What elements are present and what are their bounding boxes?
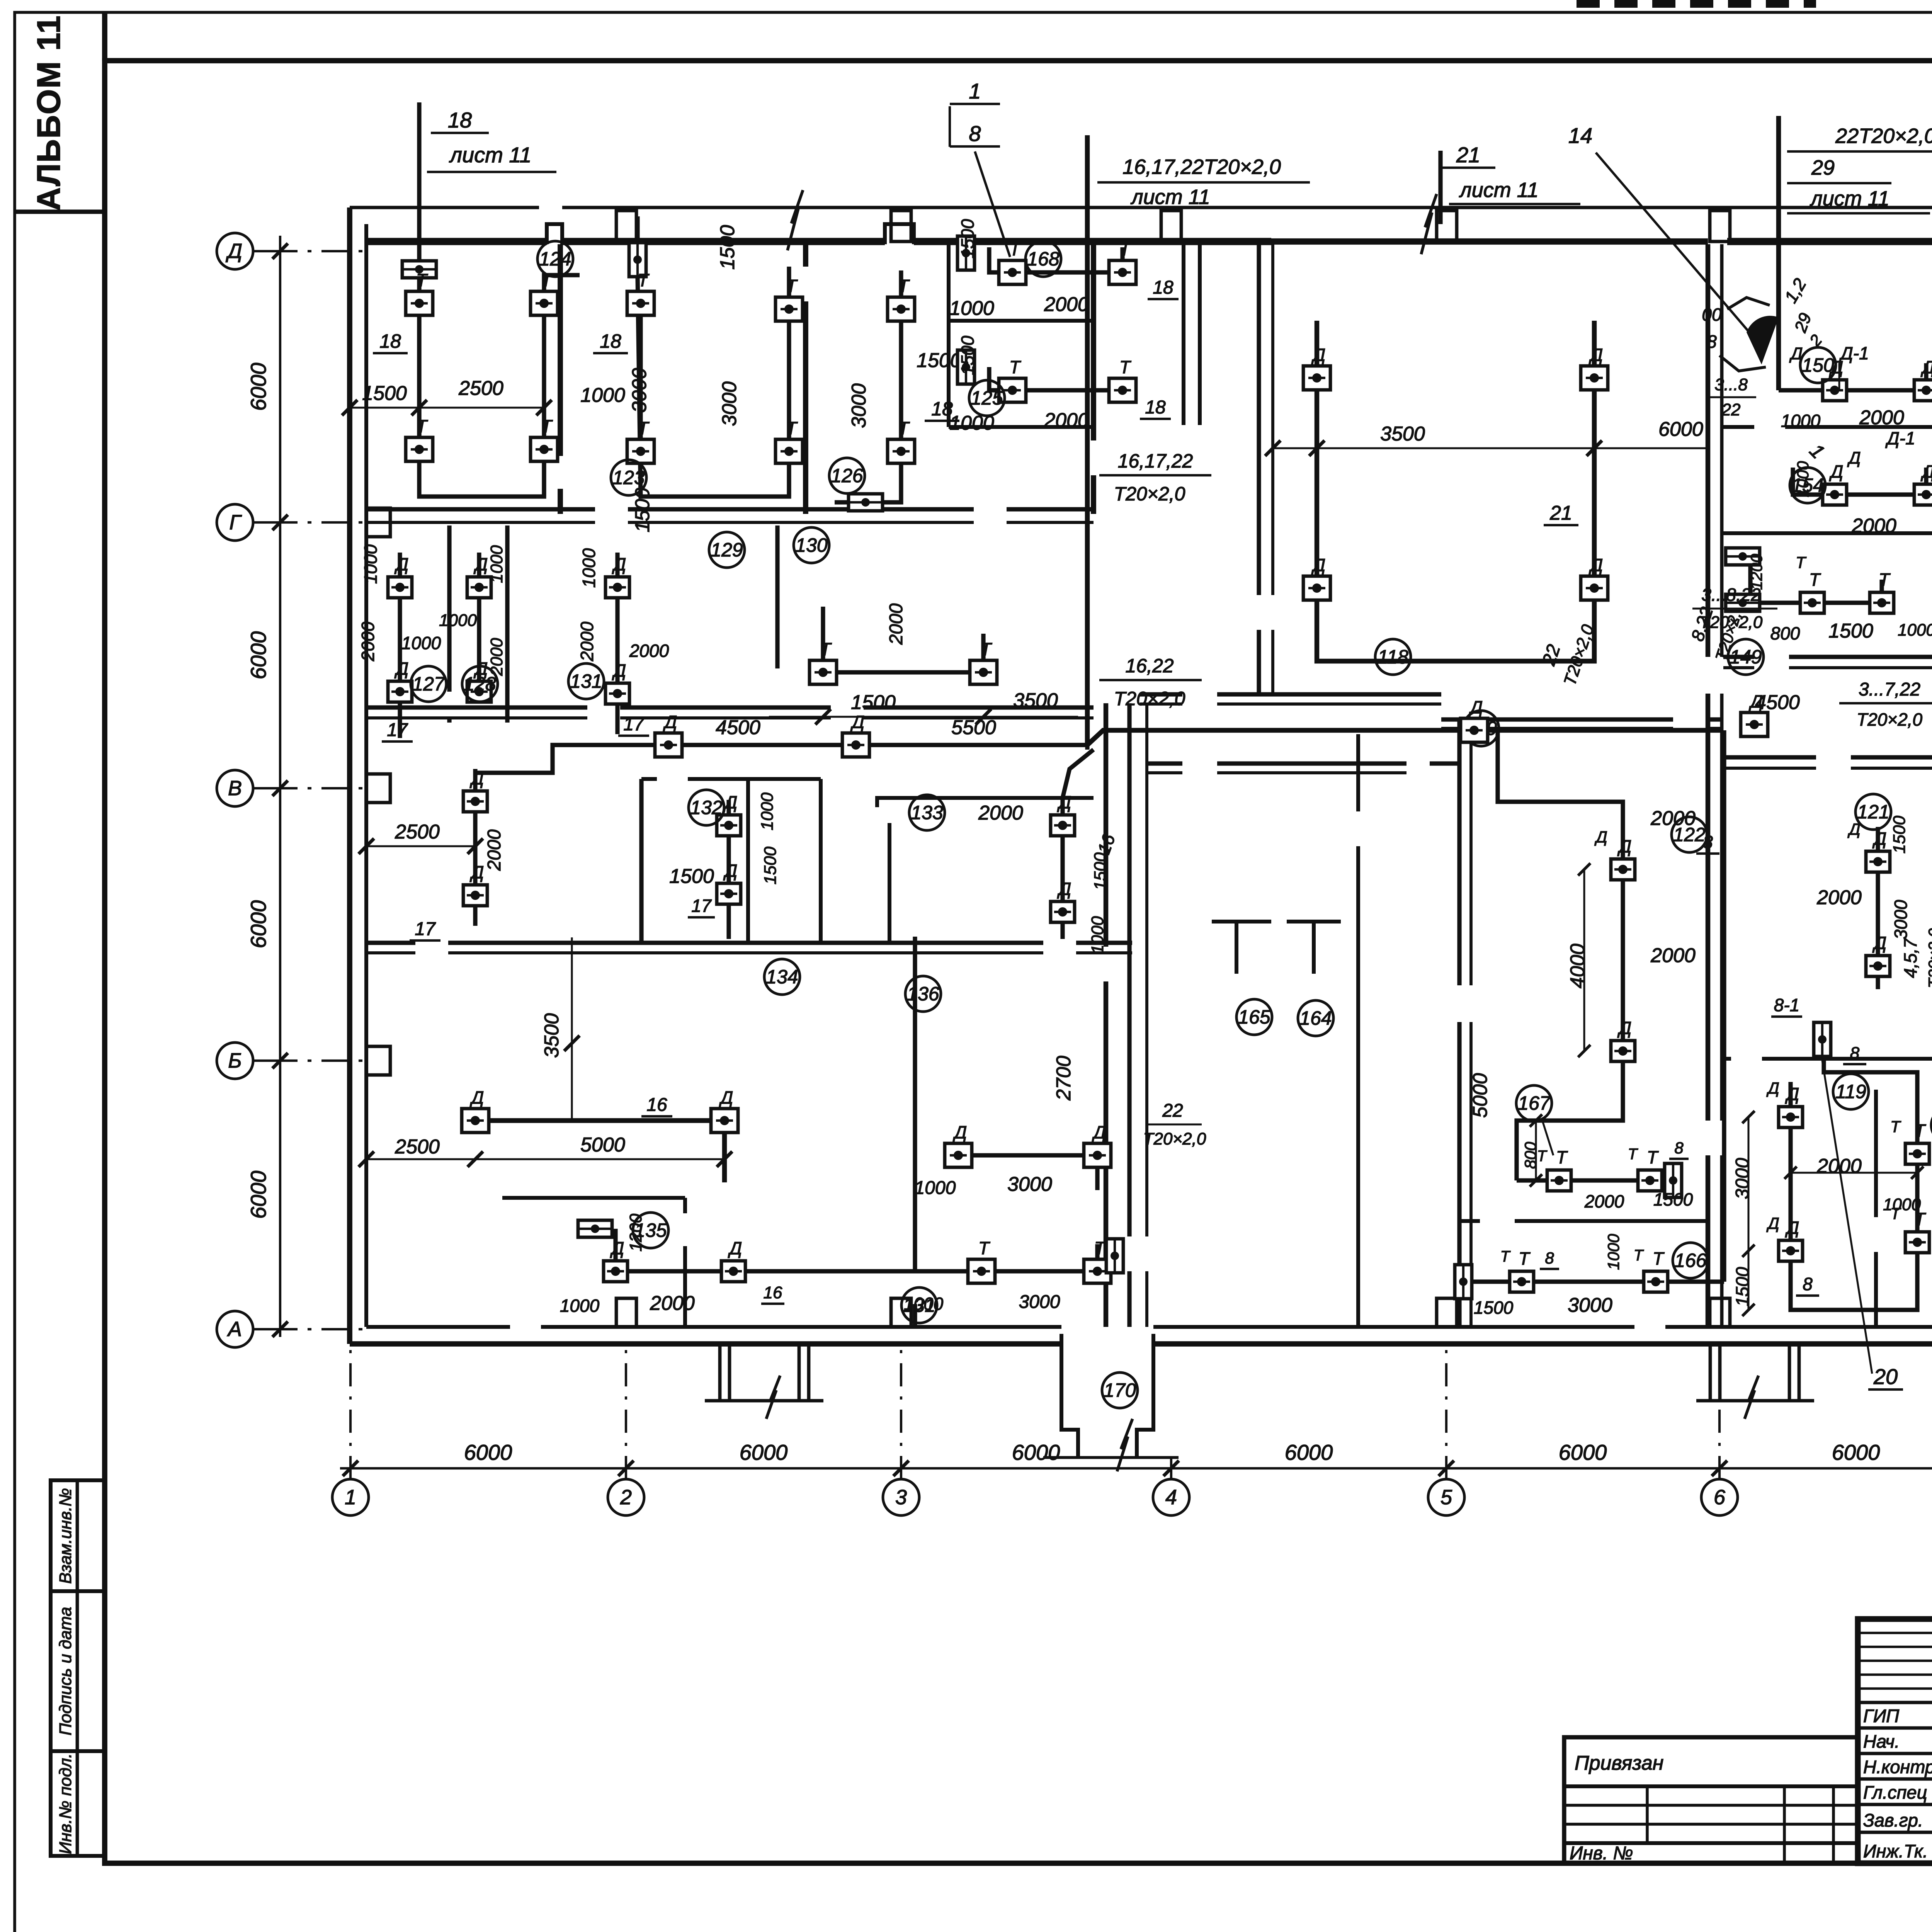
svg-text:2000: 2000 — [1851, 515, 1896, 537]
main spine wall — [1706, 244, 1711, 657]
junction box at 1540,3180 — [578, 1220, 612, 1237]
svg-text:1000: 1000 — [1781, 411, 1821, 431]
break mark bottom — [1117, 1419, 1133, 1471]
outer wall bottom — [350, 1341, 1061, 1347]
room number 169 — [1463, 711, 1499, 746]
detector Д at 2215,1928 — [842, 733, 869, 757]
svg-text:Д: Д — [469, 768, 484, 788]
detector Т at 2620,1010 — [999, 378, 1026, 402]
svg-text:лист 11: лист 11 — [449, 143, 531, 167]
svg-text:16,22: 16,22 — [1125, 655, 1173, 677]
svg-text:Нач.: Нач. — [1863, 1731, 1900, 1752]
svg-text:3500: 3500 — [1380, 423, 1425, 445]
detector Д at 3815,1890 — [1461, 718, 1488, 742]
scan artifact dashes top — [1577, 0, 1816, 8]
svg-text:6000: 6000 — [464, 1440, 512, 1464]
junction box at 1085,697 — [402, 261, 436, 278]
detector Т at 4285,3317 — [1644, 1271, 1668, 1292]
detector Т at 1658,785 — [627, 291, 654, 315]
svg-text:16: 16 — [646, 1095, 667, 1115]
svg-text:1000: 1000 — [580, 384, 625, 406]
wall 165 block east — [1457, 719, 1461, 985]
svg-text:1500: 1500 — [1828, 620, 1873, 642]
svg-text:Т: Т — [1653, 1248, 1665, 1269]
svg-text:2000: 2000 — [650, 1292, 695, 1315]
corridor169 south wall — [1147, 761, 1182, 765]
room number 126 — [829, 458, 865, 493]
detector Т at 4270,3055 — [1638, 1170, 1662, 1191]
svg-text:3000: 3000 — [718, 381, 741, 426]
room number 127 — [411, 666, 446, 702]
svg-text:1000: 1000 — [487, 545, 506, 583]
svg-text:8: 8 — [1674, 1139, 1684, 1157]
svg-text:18: 18 — [600, 330, 621, 352]
top wall door notch — [547, 224, 562, 244]
svg-text:Т: Т — [1009, 239, 1021, 259]
wire room 123 column2 — [787, 267, 791, 497]
axis 3 — [883, 1349, 919, 1515]
detector Т at 4962,2986 — [1905, 1143, 1929, 1164]
wall above Г axis — [366, 507, 595, 511]
detector Д at 4126,978 — [1581, 366, 1608, 390]
svg-text:149: 149 — [1730, 646, 1762, 668]
svg-text:3000: 3000 — [1568, 1294, 1612, 1316]
detector Д at 4748,1280 — [1823, 484, 1847, 505]
break mark porch right — [1745, 1376, 1759, 1419]
svg-text:Инж.Тк.: Инж.Тк. — [1863, 1841, 1928, 1861]
svg-text:Г: Г — [229, 511, 242, 534]
svg-text:165: 165 — [1238, 1006, 1270, 1028]
svg-text:ГИП: ГИП — [1863, 1706, 1900, 1726]
riser 18 line — [417, 102, 421, 261]
junction box at 1650,672 — [629, 243, 646, 277]
svg-text:Д: Д — [473, 554, 488, 574]
svg-text:3000: 3000 — [1732, 1158, 1753, 1199]
wire room 121 — [1876, 827, 1880, 989]
svg-text:Т: Т — [1009, 357, 1021, 377]
svg-text:8: 8 — [1707, 332, 1717, 352]
svg-text:Д: Д — [1617, 836, 1631, 856]
porch left floor — [705, 1399, 823, 1403]
svg-text:3000: 3000 — [1019, 1292, 1060, 1312]
svg-text:А: А — [227, 1318, 242, 1341]
detector Т at 2042,1168 — [776, 439, 803, 463]
wire room 154 — [1793, 468, 1926, 495]
detector Д at 4985,1280 — [1914, 484, 1932, 505]
wall 126 sub vertical — [947, 244, 951, 427]
axis 6 — [1701, 1349, 1738, 1515]
svg-text:29: 29 — [1811, 156, 1835, 179]
detector Д at 4985,1010 — [1914, 380, 1932, 401]
svg-text:Подпись и дата: Подпись и дата — [56, 1607, 75, 1736]
svg-text:6000: 6000 — [246, 363, 270, 411]
svg-text:22: 22 — [1162, 1100, 1183, 1121]
wall 168|125 horizontal — [949, 319, 1094, 323]
svg-text:Т20×2,0: Т20×2,0 — [1700, 613, 1763, 632]
svg-text:Инв. №: Инв. № — [1570, 1843, 1633, 1864]
detector Д at 1230,2317 — [463, 885, 487, 906]
corridor 170 threshold — [1043, 1456, 1179, 1459]
svg-text:6000: 6000 — [1832, 1440, 1880, 1464]
wire room 150 — [1779, 363, 1926, 390]
svg-text:1500: 1500 — [851, 691, 896, 714]
svg-text:20: 20 — [1873, 1364, 1898, 1389]
room number 121 — [1855, 794, 1891, 830]
leader 14 — [1596, 153, 1754, 338]
wall under row2 — [366, 705, 587, 709]
svg-text:1500: 1500 — [669, 865, 714, 888]
leader 167 — [1542, 1119, 1553, 1155]
wall 133 west — [888, 823, 891, 943]
svg-text:3000: 3000 — [1891, 900, 1911, 939]
junction box at 2240,1300 — [849, 494, 883, 511]
svg-text:АЛЬБОМ 11: АЛЬБОМ 11 — [31, 15, 67, 211]
corridor 170 west wall — [1061, 1334, 1078, 1458]
top wall inner band — [366, 238, 547, 245]
svg-text:Т: Т — [1796, 553, 1807, 571]
closet wall — [819, 779, 823, 943]
detector Д at 4126,1522 — [1581, 576, 1608, 600]
svg-text:3...8: 3...8 — [1714, 375, 1748, 394]
svg-text:Д: Д — [226, 240, 242, 263]
svg-text:Д: Д — [394, 658, 408, 679]
svg-text:1500: 1500 — [917, 349, 961, 372]
walls row2 127|128 — [447, 526, 451, 692]
svg-text:1: 1 — [969, 79, 981, 103]
svg-text:В: В — [228, 777, 242, 800]
svg-text:Д: Д — [1785, 1084, 1799, 1104]
corridor169 north wall — [1140, 692, 1182, 696]
album box line — [102, 12, 107, 61]
svg-text:17: 17 — [691, 896, 712, 916]
svg-text:Д: Д — [1468, 697, 1483, 717]
room number 135 — [633, 1213, 668, 1248]
detector Т at 1408,785 — [531, 291, 558, 315]
svg-text:Д: Д — [728, 1238, 742, 1258]
svg-text:2: 2 — [620, 1486, 632, 1509]
central corridor east wall — [1127, 703, 1131, 1236]
svg-text:лист 11: лист 11 — [1459, 179, 1539, 202]
wire room 126 — [835, 270, 901, 502]
svg-text:2000: 2000 — [978, 802, 1023, 824]
left axis dimension line — [279, 236, 281, 1337]
room number 166 — [1673, 1243, 1708, 1278]
detector Д at 1240,1790 — [467, 681, 491, 702]
svg-text:4: 4 — [1165, 1486, 1177, 1509]
wall 132 west — [639, 779, 643, 943]
svg-text:Д: Д — [850, 712, 864, 732]
corridor169 south wall stub — [1430, 761, 1459, 765]
detector Т at 4870,1560 — [1870, 592, 1894, 613]
svg-text:2000: 2000 — [1816, 886, 1862, 909]
svg-text:2000: 2000 — [358, 621, 378, 662]
wire corridor down — [1085, 745, 1089, 750]
detector Д at 4540,1875 — [1741, 713, 1768, 736]
detector Д at 1730,1928 — [655, 733, 682, 757]
wall 119|120 — [1874, 1090, 1878, 1217]
room number 131 — [901, 1287, 937, 1323]
porch right floor — [1696, 1399, 1814, 1403]
svg-text:Т: Т — [1890, 1204, 1901, 1223]
svg-text:8: 8 — [1545, 1249, 1554, 1267]
svg-text:Д: Д — [723, 861, 737, 881]
svg-text:Д: Д — [663, 712, 677, 732]
svg-text:Д: Д — [1766, 1079, 1779, 1097]
svg-text:Т20×2,0: Т20×2,0 — [1857, 709, 1922, 730]
svg-text:Т: Т — [1094, 1238, 1106, 1258]
axis А — [217, 1311, 371, 1347]
wire room 128 — [477, 553, 481, 692]
svg-text:6000: 6000 — [1559, 1440, 1607, 1464]
svg-text:2500: 2500 — [458, 377, 503, 400]
junction box at 2885,3250 — [1106, 1239, 1123, 1273]
svg-text:1000: 1000 — [361, 544, 381, 584]
svg-text:166: 166 — [1674, 1250, 1707, 1271]
detector Т at 2540,3290 — [968, 1259, 995, 1283]
svg-text:Д: Д — [1617, 1018, 1631, 1038]
svg-text:Д: Д — [1057, 792, 1071, 812]
leader 1-8 — [975, 151, 1010, 257]
svg-text:16,17,22: 16,17,22 — [1118, 450, 1193, 472]
svg-text:Гл.спец: Гл.спец — [1863, 1782, 1927, 1803]
svg-text:2000: 2000 — [1650, 944, 1696, 967]
detector Т at 4962,3215 — [1905, 1232, 1929, 1253]
room number 168 — [1026, 241, 1061, 277]
svg-text:Взам.инв.№: Взам.инв.№ — [56, 1488, 75, 1584]
detector Т at 2042,800 — [776, 297, 803, 321]
detector Д at 1875,2900 — [711, 1109, 738, 1133]
svg-text:1000: 1000 — [915, 1178, 956, 1198]
svg-text:1500: 1500 — [1091, 852, 1110, 890]
svg-text:Д: Д — [469, 1087, 484, 1107]
wire bottom 131b — [866, 1244, 1097, 1271]
detector Д at 2750,2360 — [1051, 901, 1075, 922]
pривязан table — [1564, 1737, 1858, 1864]
svg-text:Д: Д — [1872, 828, 1886, 849]
svg-text:1000: 1000 — [1883, 1195, 1921, 1214]
svg-text:22: 22 — [1721, 400, 1741, 419]
svg-text:124: 124 — [539, 248, 571, 270]
svg-text:1000: 1000 — [949, 297, 994, 320]
wire room 132 — [726, 800, 731, 939]
detector Д at 1230,2074 — [463, 791, 487, 812]
wall 124|123 — [558, 244, 563, 456]
room number 136 — [905, 976, 941, 1012]
detector Т at 2332,1168 — [888, 439, 915, 463]
svg-text:4,5,7: 4,5,7 — [1900, 938, 1920, 978]
riser 21 — [1438, 151, 1442, 224]
svg-text:18: 18 — [448, 108, 472, 132]
svg-text:Д: Д — [1057, 879, 1071, 899]
room number 129 — [709, 532, 745, 568]
room number 149 — [1728, 639, 1764, 675]
svg-text:3: 3 — [895, 1486, 907, 1509]
axis 1 — [332, 1349, 369, 1515]
room number 164 — [1298, 1000, 1333, 1036]
svg-text:127: 127 — [412, 673, 446, 695]
svg-text:6000: 6000 — [1285, 1440, 1333, 1464]
svg-text:Д: Д — [1785, 1218, 1799, 1238]
corridor wire — [475, 745, 1087, 773]
svg-text:Д: Д — [1847, 449, 1861, 468]
svg-text:21: 21 — [1549, 502, 1572, 524]
axis 2 — [608, 1349, 644, 1515]
wall 121 south — [1723, 1057, 1731, 1061]
detector Т at 1085,785 — [406, 291, 433, 315]
room number 167 — [1516, 1085, 1552, 1121]
svg-text:129: 129 — [711, 539, 743, 561]
corridor right north wall — [1723, 655, 1754, 659]
wire room 122 — [1498, 730, 1623, 1180]
svg-text:136: 136 — [907, 983, 939, 1005]
wall 154 south — [1723, 531, 1932, 535]
svg-text:Т20×2,0: Т20×2,0 — [1925, 928, 1932, 988]
svg-text:135: 135 — [634, 1219, 667, 1241]
wall 128 right — [505, 526, 509, 723]
svg-text:170: 170 — [1104, 1379, 1136, 1401]
svg-text:Т: Т — [1634, 1247, 1644, 1264]
svg-text:Т: Т — [1914, 1121, 1926, 1141]
svg-text:Д: Д — [1311, 345, 1325, 365]
svg-text:Зав.гр.: Зав.гр. — [1863, 1810, 1923, 1830]
detector Т at 2130,1740 — [810, 660, 837, 684]
porch right stubs — [1709, 1344, 1712, 1401]
svg-text:3...8,22: 3...8,22 — [1701, 585, 1760, 605]
detector Д at 1035,1520 — [388, 577, 412, 598]
svg-text:14: 14 — [1568, 123, 1592, 148]
wire room 118 — [1317, 321, 1594, 661]
svg-text:125: 125 — [971, 387, 1003, 409]
wall 129|130 — [775, 526, 779, 668]
room number 170 — [1102, 1372, 1138, 1408]
svg-text:130: 130 — [795, 534, 828, 556]
wire room 119 — [1791, 1045, 1917, 1310]
svg-text:Д: Д — [1829, 461, 1843, 481]
svg-text:168: 168 — [1027, 248, 1060, 270]
detector Д at 2750,2136 — [1051, 815, 1075, 836]
svg-text:3000: 3000 — [848, 383, 870, 428]
detector Д at 1593,3290 — [604, 1261, 628, 1282]
room number 131 — [568, 663, 604, 699]
svg-text:Д: Д — [612, 660, 626, 680]
detector Д at 4634,2891 — [1779, 1107, 1803, 1128]
svg-text:Б: Б — [228, 1049, 241, 1072]
shaft walls left of 118 — [1182, 244, 1185, 425]
wire room 167 — [1517, 1178, 1662, 1182]
svg-text:1500: 1500 — [716, 225, 739, 270]
svg-text:Д-1: Д-1 — [1838, 343, 1869, 363]
svg-text:Т: Т — [1647, 1147, 1659, 1167]
svg-text:лист 11: лист 11 — [1810, 187, 1889, 210]
svg-text:5000: 5000 — [580, 1134, 625, 1156]
svg-text:4500: 4500 — [1755, 691, 1800, 714]
wire room 136 — [958, 1155, 1097, 1190]
svg-text:8: 8 — [969, 121, 981, 146]
svg-text:Д: Д — [1588, 345, 1603, 365]
svg-text:16: 16 — [764, 1283, 782, 1302]
svg-text:Т: Т — [416, 270, 428, 290]
svg-text:126: 126 — [831, 465, 863, 486]
wall 123|126 — [803, 244, 808, 267]
outer wall top thin line — [350, 206, 539, 209]
wall corridor131 bottom — [366, 940, 415, 945]
svg-text:Д: Д — [1311, 555, 1325, 575]
wall 133 top — [877, 798, 1094, 807]
svg-text:1000: 1000 — [758, 793, 777, 830]
svg-text:Д: Д — [1920, 461, 1932, 481]
wire room 124 — [419, 267, 544, 497]
room number 154 — [1790, 468, 1825, 503]
svg-text:Т: Т — [1628, 1146, 1638, 1163]
svg-text:1500: 1500 — [362, 382, 407, 405]
svg-text:2000: 2000 — [1859, 406, 1904, 429]
riser 22 heavy — [1776, 116, 1781, 390]
svg-text:Д: Д — [612, 554, 626, 574]
svg-text:1500: 1500 — [1653, 1189, 1693, 1209]
svg-text:118: 118 — [1378, 646, 1408, 668]
svg-text:Т: Т — [980, 639, 992, 659]
svg-text:Д: Д — [394, 554, 408, 574]
svg-text:1000: 1000 — [401, 633, 441, 653]
svg-text:1500: 1500 — [761, 847, 780, 884]
svg-text:2000: 2000 — [484, 829, 505, 871]
junction box at 4510,1560 — [1726, 594, 1760, 611]
room number 118 — [1375, 639, 1411, 675]
svg-text:3...7,22: 3...7,22 — [1859, 679, 1920, 700]
riser 16-17-22 — [1085, 135, 1090, 745]
svg-text:2000: 2000 — [1044, 409, 1089, 432]
wire room below B — [473, 769, 477, 926]
svg-text:1000: 1000 — [1898, 621, 1932, 639]
svg-text:Д: Д — [1872, 933, 1886, 953]
svg-text:Д: Д — [1766, 1214, 1779, 1232]
svg-text:1500: 1500 — [1890, 816, 1909, 854]
svg-text:17: 17 — [623, 714, 645, 735]
wire room 129 — [615, 553, 619, 734]
axis Б — [217, 1043, 371, 1079]
detector Д at 1886,2313 — [717, 883, 741, 904]
wire room 130 — [823, 607, 983, 672]
detector Т at 2620,705 — [999, 260, 1026, 284]
junction box at 4510,1440 — [1726, 548, 1760, 565]
svg-text:2500: 2500 — [395, 1136, 440, 1158]
detector Д at 3408,978 — [1303, 366, 1330, 390]
room number 125 — [969, 380, 1005, 416]
svg-text:1000: 1000 — [579, 548, 599, 588]
room number 150 — [1800, 347, 1836, 383]
svg-text:800: 800 — [1770, 623, 1800, 643]
svg-text:8-1: 8-1 — [1774, 995, 1799, 1015]
axis Д — [217, 233, 371, 269]
dims below B — [366, 845, 475, 847]
svg-text:Д-1: Д-1 — [1885, 428, 1915, 448]
detector Т at 2840,3290 — [1084, 1259, 1111, 1283]
svg-text:164: 164 — [1299, 1007, 1332, 1029]
svg-text:1: 1 — [345, 1486, 356, 1509]
svg-text:133: 133 — [911, 802, 943, 823]
wire room 125 — [989, 367, 1122, 390]
svg-text:1500: 1500 — [957, 335, 978, 375]
svg-text:1000: 1000 — [1088, 916, 1107, 954]
svg-text:3000: 3000 — [1007, 1173, 1052, 1196]
svg-text:2000: 2000 — [1929, 1168, 1932, 1208]
svg-text:16,17,22Т20×2,0: 16,17,22Т20×2,0 — [1122, 155, 1281, 179]
svg-text:3500: 3500 — [541, 1013, 563, 1058]
svg-text:лист 11: лист 11 — [1130, 185, 1210, 209]
dims room 118 — [1273, 447, 1708, 449]
svg-text:131: 131 — [903, 1294, 935, 1316]
detector Т at 4690,1560 — [1800, 592, 1824, 613]
